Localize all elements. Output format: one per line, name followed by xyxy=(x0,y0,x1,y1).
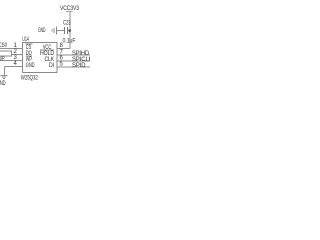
pin name /CS xyxy=(26,44,33,51)
svg-text:DI: DI xyxy=(49,63,54,69)
wire pin7 HOLD xyxy=(57,54,90,56)
ground (bottom left) xyxy=(0,75,7,78)
pin name /WP xyxy=(26,56,32,63)
port box pin2 xyxy=(0,51,12,56)
node VCC3V3 xyxy=(60,6,80,12)
wire pin4 GND xyxy=(4,67,22,76)
capacitor C23 xyxy=(65,27,68,34)
wire cap to VCC xyxy=(67,30,69,32)
svg-text:CS0: CS0 xyxy=(0,43,8,49)
svg-text:GND: GND xyxy=(0,81,6,87)
wire pin8 VCC xyxy=(57,48,70,50)
svg-text:WP: WP xyxy=(0,56,5,62)
wire pin1 CS xyxy=(0,48,23,50)
wire pin2 DO xyxy=(12,54,23,56)
svg-text:GND: GND xyxy=(38,28,46,34)
svg-text:SPID: SPID xyxy=(72,63,86,69)
svg-text:U14: U14 xyxy=(22,37,29,43)
wire cap to ground xyxy=(56,30,64,32)
wire pin6 CLK xyxy=(57,60,90,62)
svg-text:C23: C23 xyxy=(63,21,71,27)
power bar VCC3V3 xyxy=(66,10,72,12)
pin name /HOLD xyxy=(40,50,55,57)
svg-text:GND: GND xyxy=(26,63,35,69)
wire pin5 DI xyxy=(57,66,90,68)
ground (top, rotated) xyxy=(52,27,56,35)
junction dot xyxy=(68,29,71,32)
wire VCC vertical xyxy=(69,12,71,49)
wire pin3 WP xyxy=(0,60,23,62)
svg-text:W25Q32: W25Q32 xyxy=(21,76,39,82)
IC U1 box xyxy=(23,43,58,73)
svg-text:0.1uF: 0.1uF xyxy=(63,39,76,45)
